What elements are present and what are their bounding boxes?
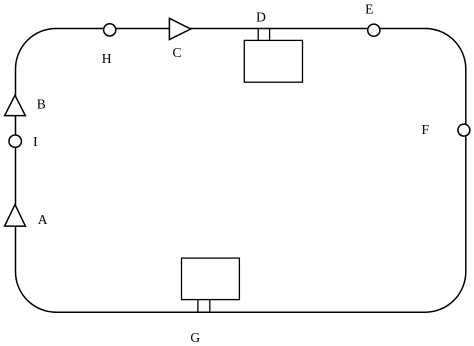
label B (37, 97, 46, 112)
device G (box sitting on bottom wire) (182, 258, 240, 300)
label F (422, 122, 430, 137)
node I (circle on left wire) (9, 135, 21, 147)
label C (172, 45, 181, 60)
node F (circle on right wire) (458, 124, 470, 136)
wire loop (closed rounded-rectangle pipe) (16, 29, 466, 313)
svg-text:E: E (365, 1, 373, 16)
valve B (up-pointing triangle on left wire) (5, 95, 26, 115)
node H (circle on top wire) (104, 24, 116, 36)
svg-text:D: D (256, 9, 266, 24)
node E (circle on top wire) (368, 24, 380, 36)
device D (box hanging from top wire) (244, 40, 302, 82)
label H (102, 51, 112, 66)
svg-text:A: A (38, 212, 48, 227)
svg-text:H: H (102, 51, 112, 66)
svg-text:I: I (33, 134, 38, 149)
svg-text:F: F (422, 122, 430, 137)
valve C (right-pointing triangle on top wire) (169, 18, 190, 39)
label E (365, 1, 373, 16)
svg-text:C: C (172, 45, 181, 60)
stem of device G (double-line connection to bottom wire) (198, 300, 210, 313)
label I (33, 134, 38, 149)
label A (38, 212, 48, 227)
svg-text:G: G (190, 330, 200, 345)
valve A (up-pointing triangle on left wire) (5, 205, 26, 227)
label G (190, 330, 200, 345)
stem of device D (double-line connection to top wire) (258, 29, 269, 41)
label D (256, 9, 266, 24)
svg-text:B: B (37, 97, 46, 112)
